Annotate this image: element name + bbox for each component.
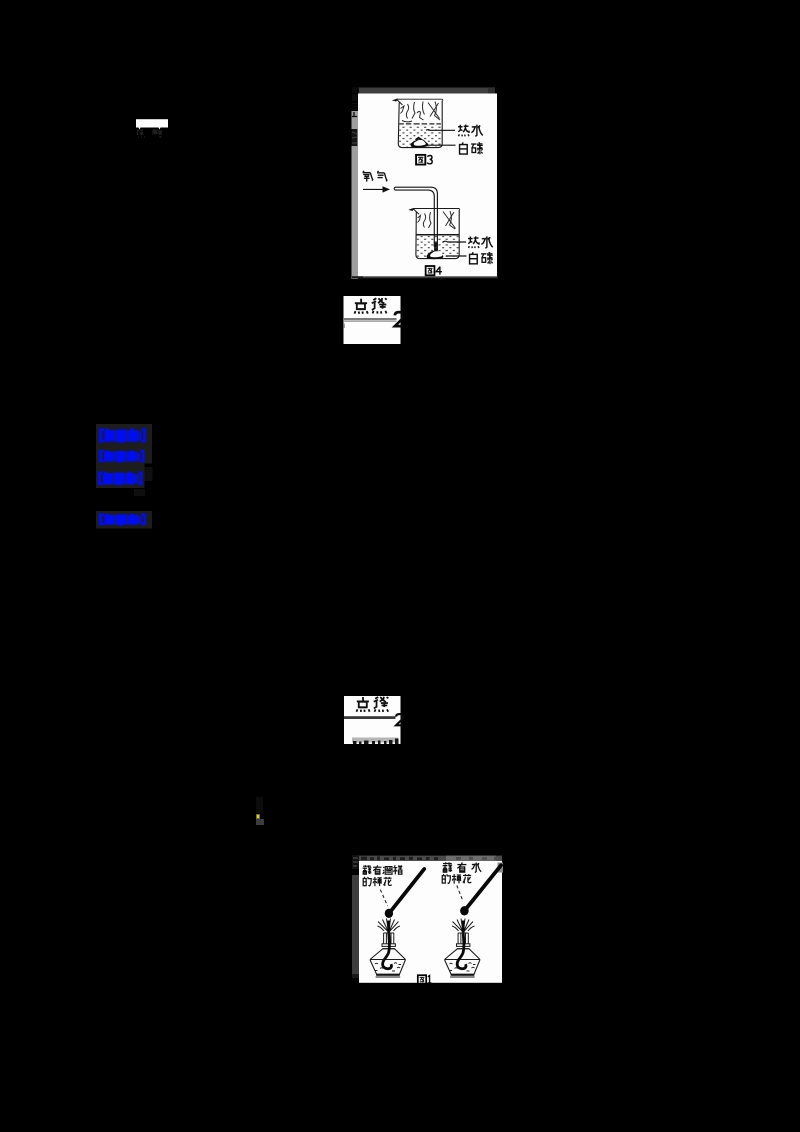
scan top bar xyxy=(358,856,502,861)
blue row 【分析】 xyxy=(98,471,143,485)
beaker3 label line to 热水 xyxy=(426,129,455,132)
label 白磷 (fig3) xyxy=(460,142,468,154)
left flame tufts xyxy=(378,919,401,933)
beaker3 rim xyxy=(397,99,444,100)
left glass rod xyxy=(391,869,425,912)
label 氧气 (oxygen in) xyxy=(362,171,372,182)
blue answer-key markers block xyxy=(90,420,220,535)
beaker3 heat waves xyxy=(401,102,441,122)
left margin strip xyxy=(352,875,359,977)
blue row 【解答】 xyxy=(99,513,146,525)
beaker4 label line to 白磷 xyxy=(446,255,467,257)
right glass rod xyxy=(466,865,501,909)
double arrow line xyxy=(344,318,397,320)
beaker3 label line to 白磷 xyxy=(427,144,456,146)
label 蘸有水 (right) xyxy=(443,862,453,872)
bottom cut-off formula remnants xyxy=(352,738,398,743)
white scan area xyxy=(359,861,502,983)
right wick curve xyxy=(457,934,466,969)
white patch A (top-left fragment) xyxy=(133,117,173,141)
equation box 1: 点燃 over double line xyxy=(343,296,403,344)
dark background patches xyxy=(96,424,152,464)
gas tube xyxy=(395,187,437,250)
blue row 【专题】 xyxy=(99,450,145,463)
beaker4 white phosphorus lump xyxy=(427,251,444,259)
left wick curve xyxy=(383,934,392,969)
beaker3 right wall xyxy=(402,101,442,148)
beaker3 water stipple xyxy=(399,125,442,147)
right base plate xyxy=(451,974,475,976)
caption 图3 xyxy=(416,155,425,165)
caption 图1 xyxy=(418,975,426,984)
beaker 图3 xyxy=(393,99,444,148)
beaker3 spout xyxy=(397,99,403,105)
left lamp body xyxy=(370,949,405,974)
beaker4 right wall xyxy=(420,210,459,259)
beaker4 water line xyxy=(416,234,459,236)
equation box 2: 点燃 over line xyxy=(344,696,404,744)
left edge gray mark xyxy=(343,324,345,329)
right flame tufts xyxy=(452,919,475,933)
label 蘸有酒精 (left) xyxy=(363,865,372,874)
left margin top remnants xyxy=(352,855,359,869)
left base plate xyxy=(376,974,400,976)
blue row 【考点】 xyxy=(99,428,146,443)
left liquid squiggles xyxy=(375,963,401,971)
white scan area xyxy=(358,94,497,278)
faint glyph remnants xyxy=(137,130,162,138)
right wick top (dark) xyxy=(462,921,465,935)
left pointer dashes xyxy=(380,890,387,906)
left wick top (dark) xyxy=(387,921,390,935)
right lamp neck xyxy=(457,933,470,949)
beaker 图4 xyxy=(409,208,460,259)
left lamp neck xyxy=(382,933,395,949)
点燃 text xyxy=(356,697,369,712)
left margin strip xyxy=(352,111,359,360)
caption 图4 xyxy=(426,266,435,275)
beaker4 water stipple xyxy=(416,236,459,257)
scan bottom line xyxy=(352,276,498,278)
shared glyph defs xyxy=(0,0,1,1)
beaker3 water surface xyxy=(399,123,441,125)
figure box 1: scanned beaker diagram 图3/图4 xyxy=(351,87,498,279)
beaker4 label line to 热水 xyxy=(443,240,466,243)
left cotton ball xyxy=(385,909,393,918)
coefficient 2 (cut) xyxy=(395,312,404,326)
yellow cursor fragment xyxy=(255,797,264,825)
left liquid line xyxy=(371,959,406,961)
label 的棉花 (left) xyxy=(363,877,371,886)
beaker4 spout xyxy=(413,209,419,215)
figure box 2: alcohol lamps 图1 xyxy=(351,855,504,984)
label 白磷 (fig4) xyxy=(470,252,478,264)
oxygen arrow xyxy=(363,188,384,190)
right liquid squiggles xyxy=(450,963,476,971)
点燃 text xyxy=(354,299,367,314)
beaker4 rim xyxy=(413,209,460,211)
top bar text remnants xyxy=(361,856,438,860)
beaker3 left wall xyxy=(398,103,402,148)
right liquid line xyxy=(445,959,480,961)
label 的棉花 (right) xyxy=(442,874,450,883)
beaker4 left wall xyxy=(416,212,420,259)
left margin glyph remnants xyxy=(352,94,358,116)
beaker3 white phosphorus lump xyxy=(411,139,429,148)
arrow line (thick) xyxy=(344,716,396,719)
right lamp body xyxy=(445,949,480,974)
label 热水 (fig3) xyxy=(458,125,469,137)
right cotton ball xyxy=(460,906,469,915)
beaker4 heat waves xyxy=(418,211,456,229)
coefficient 2 (cut) xyxy=(396,714,403,725)
label 热水 (fig4) xyxy=(468,236,479,248)
right corner gray block xyxy=(498,863,504,873)
right pointer dashes xyxy=(457,885,463,899)
scan top bar xyxy=(352,88,495,94)
